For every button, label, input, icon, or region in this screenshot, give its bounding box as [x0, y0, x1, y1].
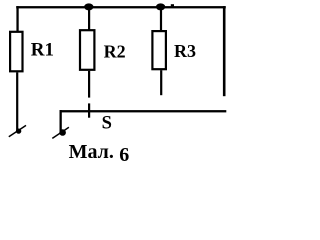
- resistor R1: [10, 32, 22, 72]
- svg-text:S: S: [102, 114, 112, 134]
- svg-text:R3: R3: [174, 41, 196, 61]
- wire drop to R2: [88, 7, 90, 30]
- switch S blade tick: [88, 103, 90, 117]
- node junction dot B: [156, 3, 165, 10]
- resistor R3: [152, 31, 166, 69]
- wire R3 bottom lead: [160, 70, 162, 95]
- terminal T1 dot: [16, 129, 21, 134]
- svg-text:R1: R1: [31, 39, 54, 60]
- speck on top bus: [171, 4, 174, 6]
- wire R1 bottom lead: [16, 72, 18, 131]
- wire right drop: [223, 6, 226, 96]
- terminal T2 slash: [52, 127, 69, 138]
- terminal T2 dot: [59, 129, 66, 136]
- svg-text:R2: R2: [104, 41, 126, 61]
- wire R2 bottom lead: [88, 71, 90, 98]
- resistor R2: [80, 30, 94, 70]
- wire drop to R3: [160, 7, 162, 31]
- svg-text:Мал.: Мал.: [69, 141, 114, 163]
- wire top bus: [16, 6, 226, 8]
- wire terminal T2 drop: [60, 110, 62, 132]
- terminal T1 slash: [9, 125, 26, 136]
- wire left drop to R1: [16, 6, 18, 31]
- svg-text:6: 6: [119, 144, 129, 166]
- node junction dot A: [84, 3, 93, 10]
- wire bottom bus: [60, 110, 227, 112]
